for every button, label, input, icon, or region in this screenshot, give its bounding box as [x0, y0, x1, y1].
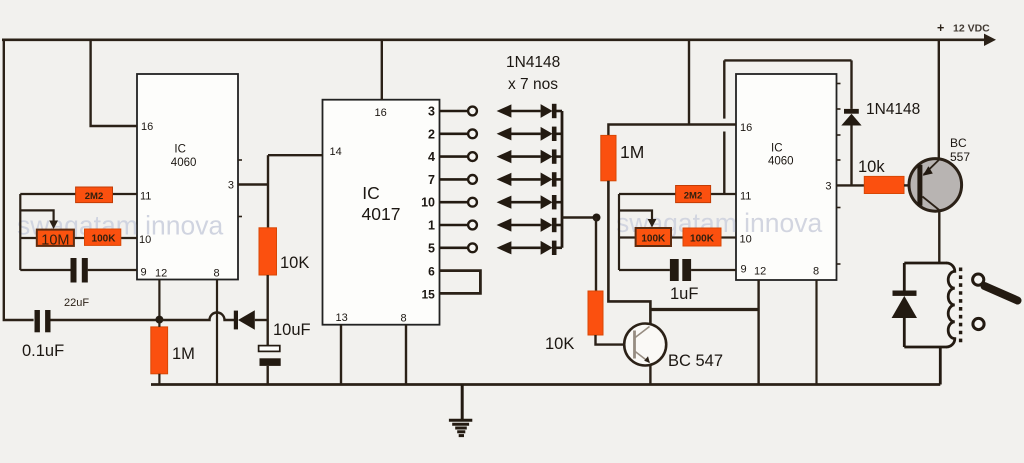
- wire diode to 10uF node: [255, 319, 268, 321]
- 4017 output pin 7 row with 1N4148 diode: [428, 172, 562, 187]
- svg-text:6: 6: [428, 265, 435, 279]
- svg-text:10: 10: [139, 234, 151, 246]
- svg-text:13: 13: [336, 312, 348, 324]
- wire node down to 10K: [267, 185, 269, 228]
- wire bracket down to diode: [850, 60, 852, 109]
- resistor 2M2 (left): [76, 187, 113, 203]
- 4017 output pin 3 row with 1N4148 diode: [428, 104, 562, 119]
- capacitor 1uF plates: [670, 259, 679, 281]
- wire pin10 row right: [619, 236, 636, 238]
- wire 10k to BC557 base: [904, 184, 910, 186]
- resistor 10k (right horizontal): [864, 176, 904, 193]
- svg-text:2M2: 2M2: [85, 191, 103, 202]
- relay dotted line: [959, 268, 962, 345]
- relay lever: [985, 286, 1018, 301]
- wire bus with hop over pin8: [160, 313, 234, 321]
- 4017 output pin 2 row with 1N4148 diode: [428, 127, 562, 142]
- svg-text:16: 16: [141, 121, 153, 133]
- svg-text:IC: IC: [771, 143, 783, 155]
- svg-text:10k: 10k: [858, 158, 885, 176]
- svg-text:1N4148: 1N4148: [866, 101, 920, 118]
- svg-text:10: 10: [421, 196, 435, 210]
- svg-text:5: 5: [428, 241, 435, 255]
- wire drop to IC1 pin16: [91, 40, 137, 126]
- node junction dot right: [593, 214, 601, 222]
- node junction dot left: [155, 316, 163, 324]
- svg-text:1N4148: 1N4148: [506, 54, 560, 71]
- relay: [904, 263, 955, 385]
- diode (by 10uF): [234, 311, 238, 330]
- pot 10M: [37, 230, 74, 246]
- relay top wire: [904, 262, 947, 265]
- wire IC2 pin16 / 1M top horizontal: [608, 125, 736, 136]
- 4017 pin6-pin15 loop: [440, 271, 481, 294]
- svg-text:12: 12: [155, 268, 167, 280]
- relay bottom wire: [904, 346, 947, 349]
- wire right network rail: [618, 194, 620, 270]
- wire collector to pin12 line (thick): [650, 308, 758, 311]
- wire IC2 pin8 drop: [815, 280, 817, 385]
- svg-text:10uF: 10uF: [273, 321, 311, 339]
- svg-text:3: 3: [825, 181, 831, 193]
- ground: [449, 385, 472, 436]
- wire pin9 row: [20, 269, 70, 271]
- wire left border drop to 0.1uF: [4, 40, 34, 320]
- capacitor 0.1uF plates: [35, 310, 40, 332]
- svg-text:22uF: 22uF: [64, 297, 89, 309]
- diode in relay: [893, 291, 917, 296]
- svg-text:3: 3: [228, 180, 234, 192]
- svg-text:11: 11: [740, 191, 751, 203]
- +12 VDC arrowhead: [984, 34, 996, 46]
- svg-text:4017: 4017: [362, 204, 401, 224]
- 4017 output pin 10 row with 1N4148 diode: [421, 195, 562, 210]
- wire 4017 pin8 drop: [405, 325, 407, 385]
- svg-text:1: 1: [428, 219, 435, 233]
- resistor 1M (right): [601, 135, 616, 180]
- svg-text:16: 16: [740, 122, 752, 134]
- svg-text:14: 14: [330, 146, 342, 158]
- svg-text:1uF: 1uF: [670, 285, 698, 303]
- pot 10M wiper arrowhead: [49, 221, 58, 230]
- wire 1M leads: [158, 320, 160, 327]
- svg-text:8: 8: [813, 266, 819, 278]
- wire IC2 pin3 to 10k: [837, 184, 865, 186]
- svg-text:+: +: [937, 21, 944, 35]
- wire drop to BC557 emitter: [938, 40, 940, 160]
- wire node up to pin14 wire: [267, 155, 269, 184]
- wire 1M bottom to BC547 collector: [608, 181, 650, 324]
- svg-text:3: 3: [428, 105, 435, 119]
- svg-text:4: 4: [428, 150, 435, 164]
- wire drop to IC 4017 pin16: [381, 40, 383, 100]
- resistor 10K (right): [588, 291, 603, 335]
- wire IC1 pin12 drop: [158, 280, 160, 321]
- svg-text:1M: 1M: [620, 142, 644, 162]
- wire pot wiper feed: [20, 210, 53, 222]
- pot 100K (right): [636, 228, 671, 246]
- wire 4017 pin13 drop: [340, 325, 342, 385]
- relay left side + diode leads: [903, 263, 906, 291]
- diode bus vertical: [561, 111, 564, 248]
- wire 10K to 10uF: [267, 275, 269, 346]
- svg-text:10K: 10K: [545, 335, 574, 353]
- svg-text:0.1uF: 0.1uF: [22, 342, 64, 360]
- resistor 100K (right second): [683, 228, 721, 246]
- svg-text:4060: 4060: [768, 156, 794, 168]
- svg-text:1M: 1M: [172, 345, 195, 363]
- svg-text:2: 2: [428, 127, 435, 141]
- svg-text:10M: 10M: [41, 233, 69, 249]
- svg-text:BC 547: BC 547: [668, 352, 723, 370]
- resistor 1M (left): [151, 327, 168, 374]
- svg-text:8: 8: [214, 268, 220, 280]
- wire pin9 row right: [619, 269, 670, 271]
- svg-text:15: 15: [421, 287, 435, 301]
- wire left network rail: [19, 194, 21, 270]
- wire bracket diode to pin11 (vertical with gap): [723, 60, 725, 118]
- wire pin11 row right: [619, 193, 676, 195]
- wire BC557 collector to relay: [938, 210, 940, 264]
- wire IC1 pin3 to node: [238, 183, 268, 185]
- resistor 2M2 (right): [676, 186, 711, 203]
- wire to IC4017 pin14: [268, 154, 323, 156]
- svg-text:7: 7: [428, 173, 435, 187]
- 4017 output pin 5 row with 1N4148 diode: [428, 241, 562, 256]
- svg-text:9: 9: [741, 264, 747, 276]
- wire bracket top: [724, 59, 851, 61]
- svg-text:4060: 4060: [171, 157, 197, 169]
- svg-text:8: 8: [401, 313, 407, 325]
- resistor 100K (left): [85, 229, 121, 245]
- svg-text:9: 9: [141, 267, 147, 279]
- relay coil: [946, 263, 954, 347]
- wire pot wiper feed right: [619, 211, 652, 221]
- svg-text:IC: IC: [362, 183, 380, 203]
- pot 100K wiper arrowhead right: [648, 219, 657, 228]
- IC2 right edge pin ticks: [837, 84, 841, 265]
- wire +12V top rail: [2, 38, 987, 41]
- svg-text:100K: 100K: [690, 234, 715, 245]
- svg-text:557: 557: [950, 150, 970, 164]
- wire bus tap to junction: [562, 216, 597, 218]
- 4017 output pin 4 row with 1N4148 diode: [428, 149, 562, 164]
- capacitor 22uF plates: [71, 258, 77, 283]
- wire pin11 row: [20, 193, 75, 195]
- svg-text:12: 12: [754, 266, 766, 278]
- transistor Q2 BC557: [909, 159, 962, 212]
- IC U2 4017 body fill: [323, 100, 440, 325]
- relay contact circles: [973, 274, 984, 285]
- wire pin10 row: [20, 237, 37, 239]
- capacitor 10uF: [259, 346, 280, 352]
- svg-text:10K: 10K: [280, 254, 309, 272]
- wire bottom rail: [151, 383, 940, 386]
- svg-text:100K: 100K: [92, 234, 117, 245]
- diode 1N4148 (right, vertical): [844, 109, 859, 114]
- transistor Q1 BC547: [624, 324, 666, 366]
- svg-text:2M2: 2M2: [684, 191, 702, 202]
- svg-text:IC: IC: [174, 144, 186, 156]
- wire IC2 pin12 drop: [757, 280, 759, 385]
- wire 0.1uF to junction: [51, 319, 161, 321]
- wire BC547 emitter to rail: [649, 366, 651, 385]
- wire drop to IC2/1M top: [688, 40, 690, 125]
- svg-text:x 7 nos: x 7 nos: [508, 76, 558, 93]
- svg-text:10: 10: [740, 234, 752, 246]
- svg-text:11: 11: [140, 191, 151, 203]
- IC1 4060 body fill: [137, 74, 238, 280]
- svg-text:BC: BC: [950, 136, 967, 150]
- IC1 right edge pin ticks: [238, 159, 242, 161]
- IC U3 4060 body fill: [736, 74, 837, 280]
- resistor 10K (left vertical): [259, 228, 277, 275]
- 4017 output pin 1 row with 1N4148 diode: [428, 218, 562, 233]
- svg-text:100K: 100K: [641, 234, 666, 245]
- svg-text:12 VDC: 12 VDC: [953, 23, 990, 35]
- svg-text:16: 16: [375, 107, 387, 119]
- relay drop to rail: [939, 347, 942, 385]
- wire 10K to BC547 base: [596, 335, 625, 345]
- wire junction down to 10K (right): [595, 218, 597, 292]
- wire IC1 pin8 drop: [216, 280, 218, 385]
